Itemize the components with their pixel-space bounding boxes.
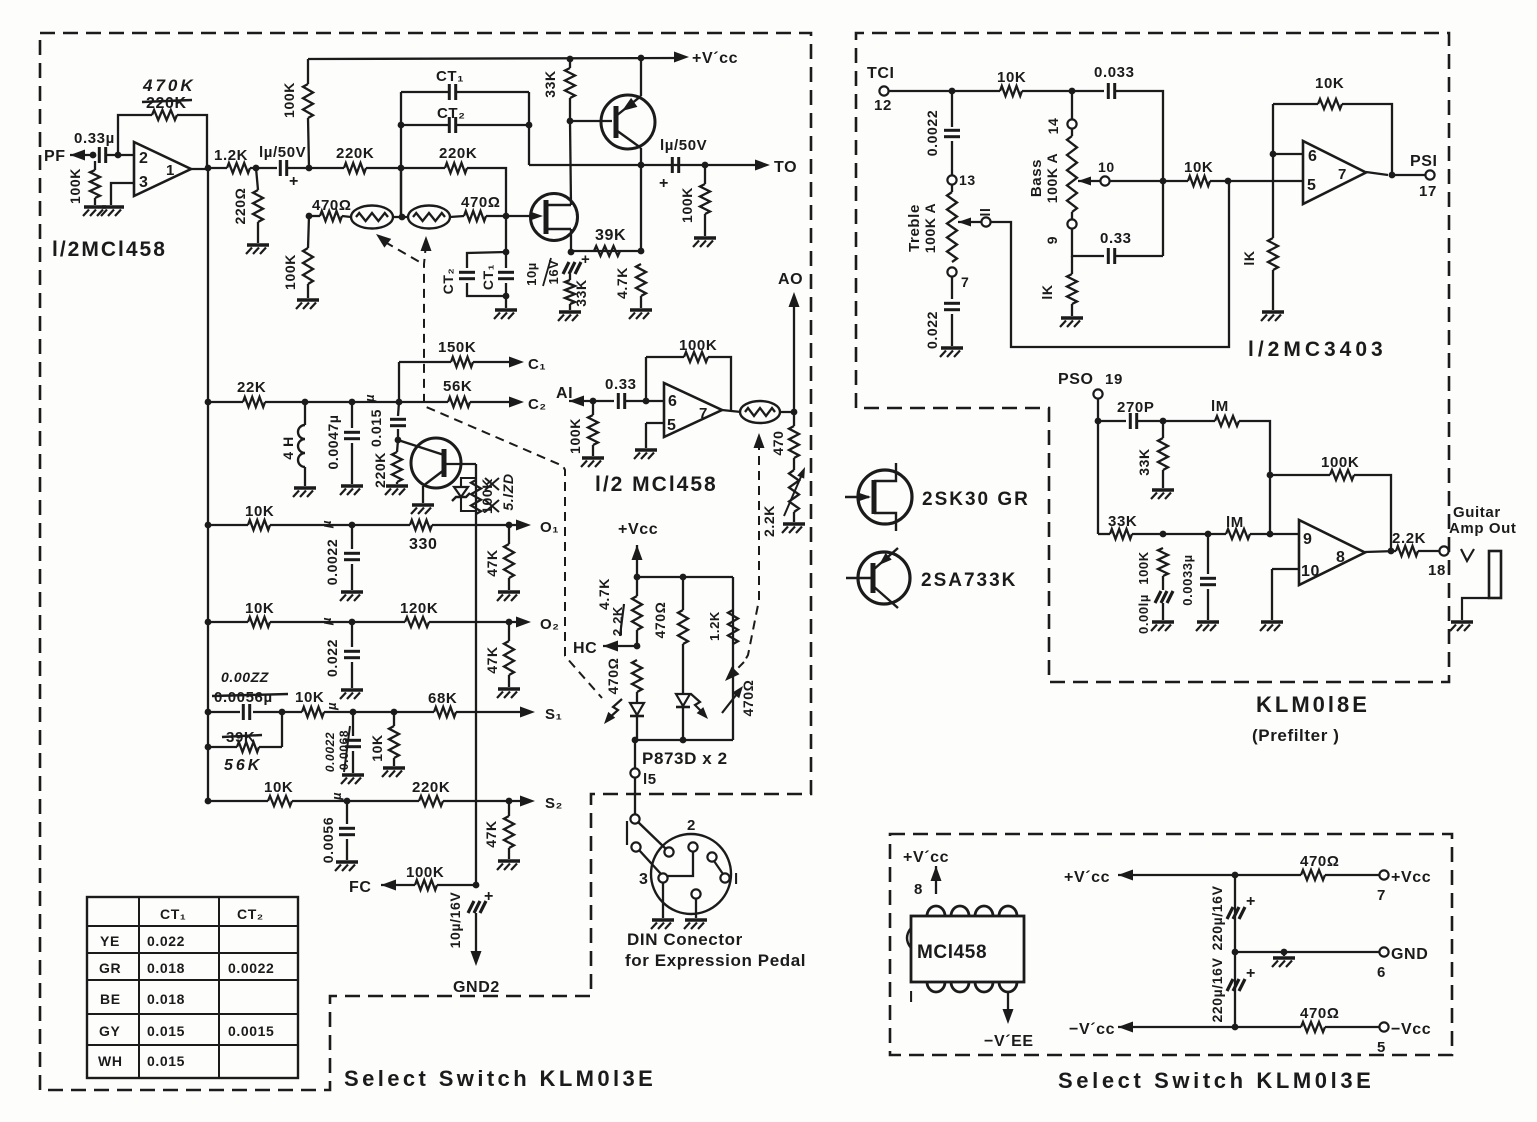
ground 220ohm [246, 245, 269, 254]
svg-text:MCl458: MCl458 [917, 942, 987, 963]
resistor 470ohm + [1301, 870, 1325, 880]
rotated 5.1ZD handwritten [500, 473, 516, 510]
svg-text:100K: 100K [1136, 551, 1151, 584]
label 2SA733K [921, 570, 1017, 591]
svg-text:GY: GY [99, 1023, 120, 1039]
junction source node [568, 249, 575, 256]
connector DIN circle [651, 834, 731, 914]
wire [292, 800, 419, 802]
svg-text:Treble: Treble [906, 204, 923, 252]
wire CT2 branch top [467, 252, 506, 268]
label 1/2MC1458 stage1 [52, 238, 167, 261]
capacitor 0.0056 S2 [339, 828, 355, 834]
terminal GND [1379, 947, 1388, 956]
svg-text:O₂: O₂ [540, 616, 560, 633]
junction hc b [680, 574, 687, 581]
wire [432, 524, 516, 526]
value 100K pf [1321, 454, 1359, 471]
svg-text:KLM0l8E: KLM0l8E [1256, 692, 1370, 717]
svg-text:µ: µ [319, 520, 334, 529]
wire [397, 440, 398, 452]
svg-text:TCI: TCI [867, 65, 895, 82]
capacitor 10u/16V FC [468, 901, 486, 913]
wire [1071, 304, 1073, 316]
svg-text:8: 8 [1336, 549, 1346, 566]
capacitor 0.0022u O1 [344, 553, 360, 559]
wire pin10 down [1271, 569, 1273, 620]
wire [1162, 421, 1164, 438]
wire [486, 215, 506, 217]
slash 10u/16V [543, 258, 551, 286]
ground O2 cap [340, 690, 363, 699]
value 10K tc [997, 69, 1026, 86]
junction zener node [395, 437, 402, 444]
wire pin5 down [645, 423, 647, 448]
value 0.0022 handwritten [221, 669, 269, 685]
junction bus y801 [205, 798, 212, 805]
node AO label [778, 271, 803, 288]
wire [682, 644, 684, 694]
strikethrough 39K [222, 735, 262, 737]
resistor 330 [410, 520, 432, 530]
value 56K [443, 378, 472, 395]
svg-text:l5: l5 [643, 771, 657, 788]
resistor 100K feedback AI [684, 352, 708, 362]
svg-text:FC: FC [349, 879, 372, 896]
junction bus y402 [205, 399, 212, 406]
svg-text:270P: 270P [1117, 399, 1154, 416]
arrow -VEE [1003, 1009, 1014, 1024]
wire [304, 467, 306, 486]
svg-text:0.33: 0.33 [605, 376, 637, 393]
junction pin6 node [1270, 151, 1277, 158]
DIN pin 3 [658, 873, 667, 882]
value 10K to opamp [1184, 159, 1213, 176]
wire wiper b [1078, 180, 1100, 182]
value 330 [409, 536, 438, 553]
rotated 0.001u [1136, 594, 1151, 634]
label CT1 [436, 68, 464, 85]
wire opamp2 out [722, 410, 741, 412]
wire [793, 512, 795, 522]
rotated Treble [906, 204, 923, 252]
wire [256, 168, 258, 190]
rotated 100K [67, 168, 83, 204]
wire [1325, 874, 1379, 876]
LED P873D b [676, 694, 690, 707]
border power-supply KLM013E block (dashed) [890, 834, 1452, 1055]
svg-text:33K: 33K [542, 70, 558, 97]
rotated 4H [280, 436, 296, 460]
node PSO label [1058, 371, 1094, 388]
svg-text:0.00ZZ: 0.00ZZ [221, 669, 269, 685]
svg-text:l: l [734, 871, 739, 888]
junction 220ohm tap [253, 165, 260, 172]
capacitor 0.33 bass [1108, 248, 1114, 264]
resistor 220ohm [253, 190, 263, 222]
value 470ohm right [461, 194, 500, 211]
table CT1/CT2 values [87, 897, 298, 1078]
label CT2 [437, 105, 465, 122]
svg-text:100K: 100K [567, 418, 583, 454]
op-amp U3 1/2MC3403 (pins 6,5,7) [1303, 141, 1366, 204]
wire [636, 630, 638, 646]
value 39K crossed [226, 729, 255, 746]
svg-text:l/2MC3403: l/2MC3403 [1248, 338, 1387, 361]
ground 100K lower [296, 300, 319, 309]
svg-text:12: 12 [874, 97, 892, 114]
wire -vcc row [1118, 1026, 1301, 1028]
svg-text:39K: 39K [595, 227, 626, 244]
wire [603, 645, 637, 647]
label DIN Conector [627, 930, 743, 949]
title Select Switch KLM013E (left) [344, 1066, 656, 1091]
node AI label [556, 385, 573, 402]
wire [1392, 174, 1425, 176]
wire [951, 267, 953, 299]
junction CT bottom bot [503, 293, 510, 300]
rotated 33K a [1136, 448, 1152, 475]
svg-text:17: 17 [1419, 183, 1437, 200]
mu mark O2 [319, 617, 334, 626]
wire [1022, 90, 1104, 92]
switch bracket [626, 821, 628, 845]
arrow C2 [509, 397, 524, 408]
junction gate/470 row [503, 213, 510, 220]
photoresistor oval C (output) [740, 401, 780, 423]
wire GND2 drop [475, 913, 477, 957]
resistor 1M b [1226, 529, 1250, 539]
resistor 470ohm - [1301, 1022, 1325, 1032]
svg-text:l/2MCl458: l/2MCl458 [52, 238, 167, 261]
svg-text:150K: 150K [438, 339, 476, 356]
terminal PSO [1093, 389, 1102, 398]
wire out U4 [1365, 551, 1396, 552]
value 1M a [1211, 398, 1229, 415]
wire CT2 row left [401, 124, 449, 126]
capacitor 0.0047u [344, 432, 360, 438]
svg-text:0.022: 0.022 [924, 311, 940, 349]
wire 56K row [208, 746, 237, 748]
capacitor CT1 (select) [449, 84, 455, 100]
node PF label [44, 148, 66, 165]
wire CT vertical to oval node [400, 168, 402, 216]
title KLM018E [1256, 692, 1370, 717]
rotated 100K top [281, 82, 297, 118]
svg-text:0.0047µ: 0.0047µ [325, 414, 341, 469]
wire out U3 [1366, 172, 1388, 175]
ground CT bottom [494, 310, 517, 319]
inductor 4H [298, 425, 305, 467]
wire [1071, 91, 1073, 119]
svg-text:470Ω: 470Ω [605, 658, 621, 695]
wire base-node down to FET drain (crosses TO row) [570, 121, 571, 205]
svg-text:+: + [581, 251, 590, 268]
wire S2 row [208, 800, 268, 802]
wire [505, 216, 507, 252]
svg-text:6: 6 [1308, 148, 1318, 165]
wire [508, 578, 510, 590]
svg-text:4.7K: 4.7K [614, 267, 630, 299]
pin 19 label [1105, 371, 1123, 388]
junction output node [205, 165, 212, 172]
wire [508, 848, 510, 859]
ground pin3 DIN [651, 920, 674, 929]
value 220K b [439, 145, 477, 162]
junction O1 cap [349, 522, 356, 529]
svg-text:l/2 MCl458: l/2 MCl458 [595, 473, 718, 496]
pin 14 label [1045, 118, 1061, 135]
wire fb right [1342, 104, 1392, 175]
arrow +Vcc rail [674, 52, 689, 63]
rotated 0.022 O2 [324, 639, 340, 677]
op-amp U1 1/2MC1458 (pins 2,3,1) [134, 142, 191, 196]
resistor 47K S2 [504, 816, 514, 848]
wire [569, 59, 571, 68]
value 0.33 AI [605, 376, 637, 393]
rotated 220K vertical [372, 452, 388, 488]
value 10K O1 [245, 503, 274, 520]
wire [1418, 550, 1439, 552]
svg-text:470Ω: 470Ω [461, 194, 500, 211]
wire FC row [381, 884, 415, 886]
rotated 100K crossed [479, 478, 495, 514]
light arrow b [691, 694, 708, 719]
svg-text:2: 2 [139, 150, 149, 167]
node S1 label [545, 706, 562, 723]
mu mark S1 [324, 702, 339, 711]
wire [951, 185, 953, 192]
wire [437, 884, 476, 886]
junction pin9 [1267, 531, 1274, 538]
arrow O2 [516, 617, 531, 628]
wire [1162, 603, 1164, 620]
wire cap to pin2 [106, 154, 134, 156]
svg-text:100K: 100K [679, 337, 717, 354]
wire gnd row [1235, 951, 1379, 953]
svg-text:220Ω: 220Ω [232, 188, 248, 225]
svg-text:33K: 33K [573, 279, 589, 306]
svg-text:PSI: PSI [1410, 153, 1438, 170]
junction PF/100K [90, 152, 97, 159]
wire [346, 801, 348, 824]
rotated 0.022 treble [924, 311, 940, 349]
terminal 11 [981, 217, 990, 226]
ground TO 100K [693, 238, 716, 247]
rotated 2.2K AO [761, 505, 777, 537]
junction cap top [1232, 872, 1239, 879]
junction main/100K-top [306, 165, 313, 172]
wire [951, 91, 953, 127]
op-amp U2 1/2MC1458 (pins 6,5,7) [664, 383, 722, 437]
junction O2 cap [349, 619, 356, 626]
wire PF input [70, 154, 95, 156]
svg-text:lK: lK [1241, 250, 1257, 265]
svg-text:22K: 22K [237, 379, 266, 396]
wire [351, 622, 353, 647]
svg-text:47K: 47K [483, 820, 499, 847]
value 10K S1 [295, 689, 324, 706]
capacitor CT2 bottom [459, 272, 475, 278]
resistor 1K U3 [1268, 238, 1278, 270]
pin 10 label [1098, 159, 1115, 175]
wire O2 row [208, 621, 248, 623]
wire C1 row [399, 361, 451, 363]
wire pin6 [1273, 153, 1303, 155]
svg-text:56K: 56K [224, 757, 262, 774]
resistor 100K lower-left [303, 248, 313, 284]
node S2 label [545, 795, 563, 812]
arrow AO [789, 292, 800, 307]
wire AO vertical [793, 298, 795, 412]
svg-text:100K A: 100K A [1044, 153, 1060, 204]
svg-text:10K: 10K [1184, 159, 1213, 176]
junction cap bot [1232, 1024, 1239, 1031]
value 56K handwritten [224, 757, 262, 774]
svg-text:47K: 47K [484, 549, 500, 576]
pin 6 term [1377, 964, 1386, 981]
svg-text:0.018: 0.018 [147, 991, 185, 1007]
strikethrough on 220K [142, 100, 192, 102]
wire cap bus [1234, 875, 1236, 1027]
svg-text:10: 10 [1301, 563, 1320, 580]
DIN pin 1 inner [707, 852, 716, 861]
arrow +Vcc ic [931, 866, 942, 881]
svg-text:lµ/50V: lµ/50V [660, 137, 707, 154]
wire [682, 707, 684, 740]
rotated 0.015 [368, 409, 384, 447]
rotated 2.2K crossed HC [610, 606, 625, 636]
mu mark S2 [329, 792, 344, 801]
wire [1325, 1026, 1379, 1028]
svg-text:+: + [1246, 965, 1256, 982]
wire [508, 801, 510, 816]
junction 100K fb top [1267, 472, 1274, 479]
svg-text:TO: TO [774, 159, 797, 176]
wire [351, 525, 353, 549]
junction bus y525 [205, 522, 212, 529]
svg-text:0.33: 0.33 [1100, 230, 1132, 247]
svg-text:Guitar: Guitar [1453, 504, 1501, 521]
wire [429, 621, 516, 623]
capacitor 10u/16V source [563, 262, 581, 274]
arrow gate Q2 [530, 212, 543, 221]
rotated 4.7K HC [596, 578, 612, 610]
rotated 100KA t [922, 203, 938, 254]
label +Vcc HC [618, 521, 658, 538]
arrow +Vcc row [1118, 870, 1133, 881]
svg-text:5: 5 [1377, 1039, 1386, 1056]
value 100K fb [679, 337, 717, 354]
junction pc b [680, 737, 687, 744]
rotated 220u/16V upper [1209, 885, 1225, 950]
transistor Q1 PNP buffer [601, 95, 655, 149]
svg-text:13: 13 [959, 172, 976, 188]
wire left bus [207, 168, 209, 801]
IC MC1458 package [907, 906, 1024, 992]
svg-text:0.033: 0.033 [1094, 64, 1135, 81]
capacitor 0.0022(0.0068) S1 [345, 740, 361, 746]
svg-text:7: 7 [961, 274, 969, 290]
svg-text:2: 2 [687, 817, 696, 834]
wire [366, 167, 445, 169]
svg-text:3: 3 [139, 174, 149, 191]
wire [393, 758, 395, 766]
svg-text:l: l [909, 989, 914, 1006]
wire S1 row [208, 711, 240, 713]
svg-text:0.0022: 0.0022 [323, 732, 337, 772]
wire wiper feedback [991, 181, 1229, 347]
junction hc a [634, 574, 641, 581]
rotated 47K O1 [484, 549, 500, 576]
resistor 56K [448, 397, 470, 407]
arrow FC [381, 880, 396, 891]
svg-text:0.0033µ: 0.0033µ [1180, 554, 1195, 605]
svg-text:0.0022: 0.0022 [324, 539, 340, 585]
value 120K [400, 600, 438, 617]
value 10K fb U3 [1315, 75, 1344, 92]
svg-text:4.7K: 4.7K [596, 578, 612, 610]
svg-text:AO: AO [778, 271, 803, 288]
svg-text:HC: HC [573, 640, 597, 657]
svg-text:9: 9 [1044, 236, 1060, 244]
svg-text:220µ/16V: 220µ/16V [1209, 885, 1225, 950]
resistor 1.2K [227, 163, 250, 173]
ground 0.0033u [1196, 622, 1219, 631]
resistor 1K bass [1067, 274, 1077, 304]
svg-text:(Prefilter ): (Prefilter ) [1252, 726, 1340, 745]
wire [508, 675, 510, 687]
junction TO/100K [702, 162, 709, 169]
pin 7 label [961, 274, 969, 290]
label +Vcc rail [692, 50, 738, 67]
strikethrough 0.0068 [344, 726, 350, 772]
label +Vcc row [1064, 869, 1110, 886]
label 1/2MC3403 [1248, 338, 1387, 361]
switch contact upper [630, 814, 639, 823]
resistor 100K AI [588, 415, 598, 445]
svg-text:CT₁: CT₁ [436, 68, 464, 85]
wire [1162, 576, 1164, 590]
svg-text:0.015: 0.015 [147, 1053, 185, 1069]
plus polarity 10u [581, 251, 590, 268]
resistor 1.2K branch3 [728, 610, 738, 644]
wire [951, 141, 953, 175]
wire [351, 402, 353, 428]
wire pin3 to ground [111, 183, 134, 205]
junction fb3 [1225, 178, 1232, 185]
junction main/CT vertical [398, 165, 405, 172]
junction gnd sym [1281, 949, 1288, 956]
ground 33K a [1151, 490, 1174, 499]
value u/50V [259, 144, 306, 161]
title Select Switch KLM013E (right) [1058, 1068, 1374, 1093]
wire pin5 [646, 422, 664, 424]
resistor 220K b [445, 163, 467, 173]
svg-text:+: + [484, 888, 494, 905]
rotated 100K TO [679, 187, 695, 223]
arrow HC [603, 641, 618, 652]
value 22K [237, 379, 266, 396]
wire AI [569, 400, 614, 402]
arrow +Vcc HC [632, 545, 643, 560]
svg-text:−Vcc: −Vcc [1391, 1021, 1431, 1038]
ground treble [940, 348, 963, 357]
wire [505, 296, 507, 308]
wire [473, 361, 516, 363]
junction AI/100K [590, 398, 597, 405]
switch blade 2 [639, 850, 661, 874]
